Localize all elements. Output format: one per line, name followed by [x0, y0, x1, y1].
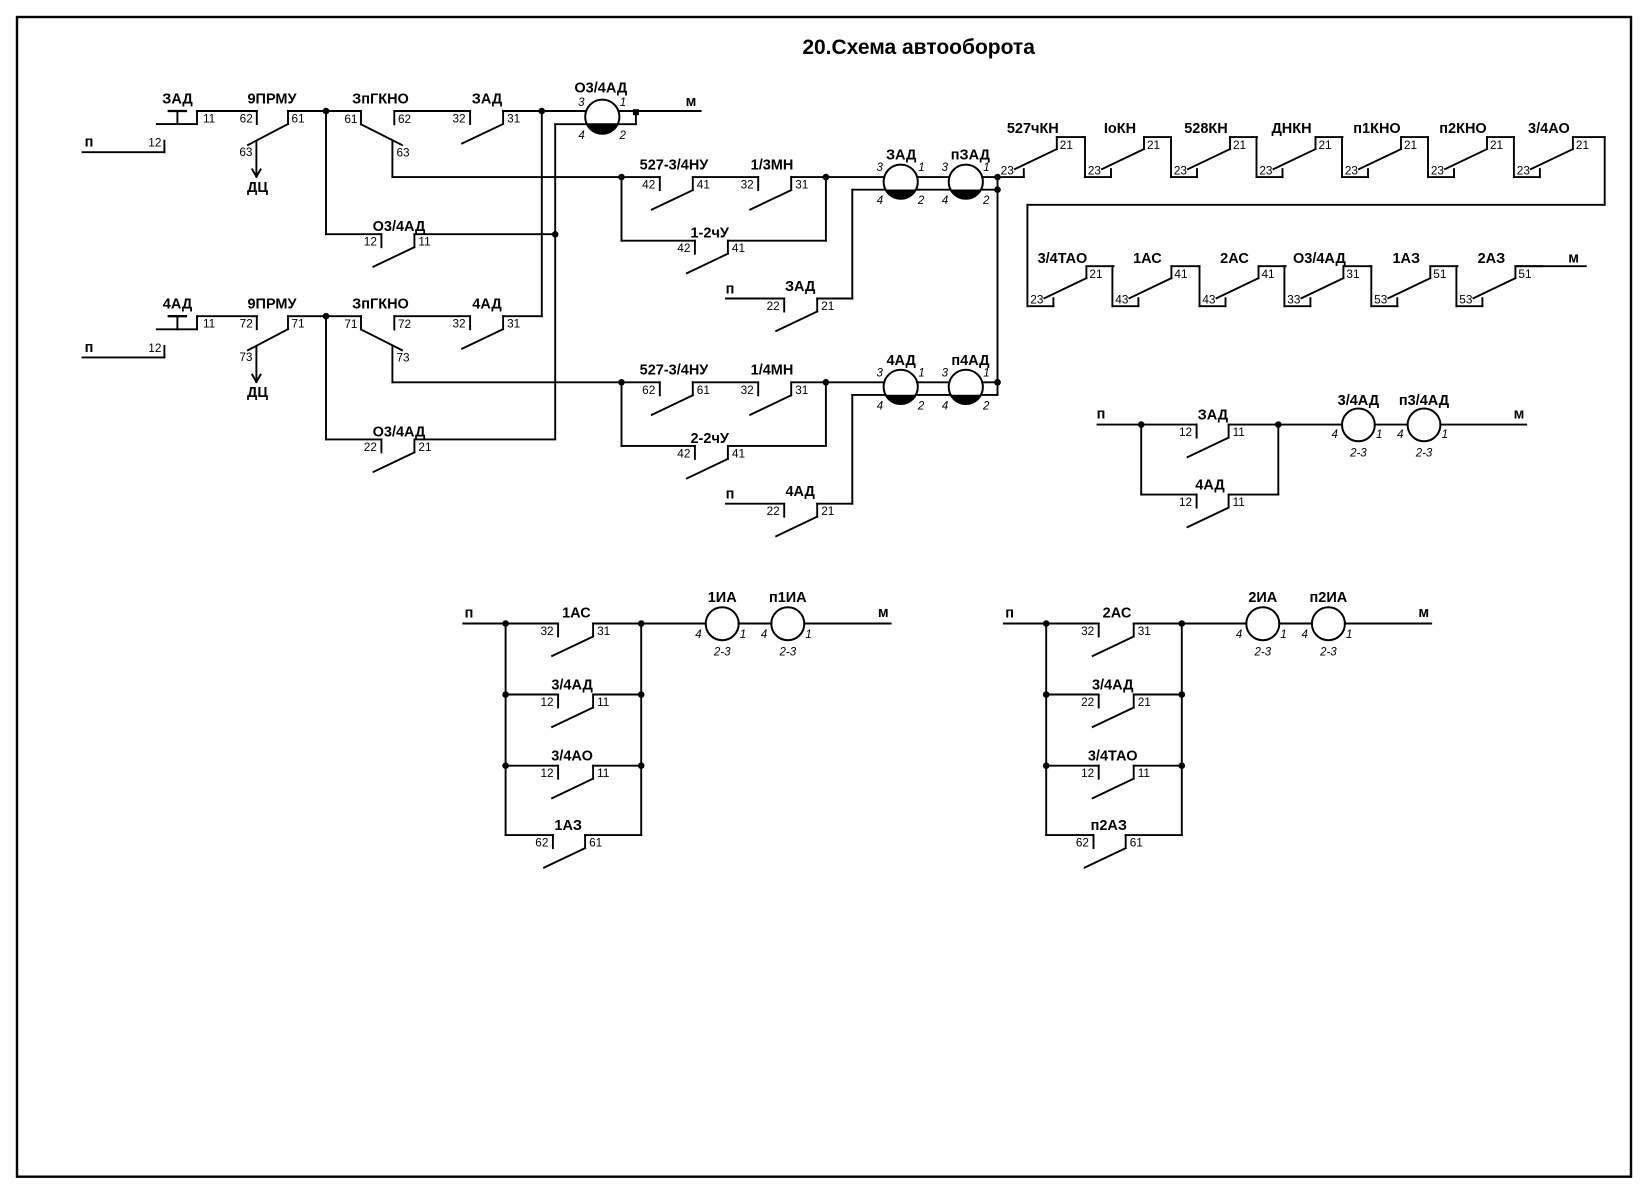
svg-text:п2ИА: п2ИА [1310, 590, 1348, 606]
svg-text:23: 23 [1174, 164, 1188, 178]
svg-text:ЗАД: ЗАД [785, 279, 816, 295]
svg-text:22: 22 [767, 504, 780, 518]
svg-text:63: 63 [397, 146, 411, 160]
svg-text:4АД: 4АД [785, 484, 815, 500]
svg-text:4: 4 [877, 195, 883, 207]
svg-text:п: п [85, 135, 94, 151]
svg-text:61: 61 [1130, 836, 1143, 850]
svg-text:23: 23 [1001, 164, 1015, 178]
svg-text:2-3: 2-3 [1253, 647, 1271, 659]
svg-text:IоКН: IоКН [1104, 121, 1136, 137]
svg-text:3/4АД: 3/4АД [551, 678, 593, 694]
svg-text:3/4ТАО: 3/4ТАО [1038, 251, 1088, 267]
svg-text:2АЗ: 2АЗ [1478, 251, 1506, 267]
svg-text:41: 41 [1262, 267, 1275, 281]
svg-text:4АД: 4АД [886, 353, 916, 369]
svg-text:71: 71 [344, 317, 357, 331]
svg-text:1: 1 [805, 629, 811, 641]
svg-text:72: 72 [240, 317, 253, 331]
svg-text:22: 22 [364, 440, 377, 454]
svg-text:1-2чУ: 1-2чУ [690, 226, 729, 242]
svg-text:41: 41 [732, 241, 745, 255]
svg-text:528КН: 528КН [1184, 121, 1228, 137]
svg-text:62: 62 [535, 836, 548, 850]
svg-text:527-3/4НУ: 527-3/4НУ [640, 157, 710, 173]
svg-text:О3/4АД: О3/4АД [574, 81, 627, 97]
svg-text:м: м [1568, 251, 1579, 267]
svg-text:12: 12 [1179, 495, 1192, 509]
svg-text:О3/4АД: О3/4АД [373, 424, 426, 440]
svg-text:3/4АД: 3/4АД [1092, 678, 1134, 694]
svg-text:м: м [1418, 605, 1429, 621]
svg-text:м: м [878, 605, 889, 621]
svg-text:53: 53 [1374, 293, 1388, 307]
svg-text:п3/4АД: п3/4АД [1399, 393, 1450, 409]
svg-text:4: 4 [1301, 629, 1307, 641]
svg-text:23: 23 [1345, 164, 1359, 178]
svg-text:73: 73 [239, 350, 253, 364]
svg-text:2: 2 [982, 400, 990, 412]
svg-text:9ПРМУ: 9ПРМУ [247, 92, 297, 108]
svg-text:32: 32 [452, 317, 465, 331]
svg-text:31: 31 [507, 112, 520, 126]
svg-text:9ПРМУ: 9ПРМУ [247, 297, 297, 313]
svg-text:43: 43 [1115, 293, 1129, 307]
svg-text:21: 21 [821, 504, 834, 518]
svg-text:м: м [686, 94, 697, 110]
svg-text:31: 31 [507, 317, 520, 331]
svg-text:61: 61 [292, 112, 305, 126]
svg-text:11: 11 [597, 695, 609, 709]
svg-text:п1ИА: п1ИА [769, 590, 807, 606]
svg-text:11: 11 [1233, 425, 1245, 439]
svg-text:41: 41 [697, 178, 710, 192]
svg-text:2АС: 2АС [1103, 606, 1132, 622]
svg-text:2: 2 [619, 130, 627, 142]
svg-text:1: 1 [620, 97, 626, 109]
svg-text:11: 11 [1138, 766, 1150, 780]
svg-text:11: 11 [1233, 495, 1245, 509]
svg-text:1АЗ: 1АЗ [554, 818, 582, 834]
svg-text:2: 2 [982, 195, 990, 207]
svg-text:3: 3 [942, 162, 949, 174]
svg-text:4: 4 [942, 195, 948, 207]
svg-text:3: 3 [578, 97, 585, 109]
svg-text:3: 3 [876, 162, 883, 174]
svg-text:4АД: 4АД [163, 297, 193, 313]
svg-text:4: 4 [695, 629, 701, 641]
svg-text:43: 43 [1202, 293, 1216, 307]
svg-text:п: п [726, 487, 735, 503]
svg-text:12: 12 [148, 136, 161, 150]
svg-text:м: м [1514, 407, 1525, 423]
svg-text:4: 4 [578, 130, 584, 142]
svg-text:33: 33 [1287, 293, 1301, 307]
svg-text:12: 12 [540, 695, 553, 709]
svg-text:12: 12 [1179, 425, 1192, 439]
svg-text:1АЗ: 1АЗ [1392, 251, 1420, 267]
svg-text:21: 21 [1490, 138, 1503, 152]
svg-text:21: 21 [1060, 138, 1073, 152]
svg-text:ДЦ: ДЦ [247, 385, 268, 401]
svg-text:1: 1 [918, 162, 924, 174]
svg-text:ЗпГКНО: ЗпГКНО [352, 92, 409, 108]
svg-text:1АС: 1АС [562, 606, 591, 622]
svg-text:2АС: 2АС [1220, 251, 1249, 267]
svg-text:12: 12 [364, 235, 377, 249]
svg-text:32: 32 [452, 112, 465, 126]
svg-text:2-2чУ: 2-2чУ [690, 431, 729, 447]
svg-text:20.Схема автооборота: 20.Схема автооборота [802, 36, 1035, 59]
svg-text:1: 1 [1346, 629, 1352, 641]
svg-text:п2КНО: п2КНО [1439, 121, 1486, 137]
svg-text:п: п [1097, 407, 1106, 423]
svg-text:11: 11 [418, 235, 430, 249]
svg-text:31: 31 [795, 178, 808, 192]
svg-text:п1КНО: п1КНО [1353, 121, 1400, 137]
svg-text:61: 61 [697, 383, 710, 397]
svg-text:31: 31 [795, 383, 808, 397]
svg-text:32: 32 [540, 624, 553, 638]
svg-text:21: 21 [1404, 138, 1417, 152]
svg-text:1: 1 [983, 162, 989, 174]
svg-text:72: 72 [398, 317, 411, 331]
svg-text:3/4АО: 3/4АО [551, 749, 593, 765]
svg-text:1АС: 1АС [1133, 251, 1162, 267]
svg-text:О3/4АД: О3/4АД [1293, 251, 1346, 267]
svg-text:62: 62 [240, 112, 253, 126]
svg-text:61: 61 [589, 836, 602, 850]
svg-text:62: 62 [1076, 836, 1089, 850]
svg-text:1/3МН: 1/3МН [751, 157, 794, 173]
svg-text:1/4МН: 1/4МН [751, 363, 794, 379]
svg-text:11: 11 [597, 766, 609, 780]
svg-text:4: 4 [761, 629, 767, 641]
svg-text:2-3: 2-3 [1415, 447, 1433, 459]
svg-text:4: 4 [1236, 629, 1242, 641]
svg-text:4: 4 [1331, 429, 1337, 441]
svg-text:42: 42 [677, 446, 690, 460]
svg-text:21: 21 [1233, 138, 1246, 152]
svg-text:2-3: 2-3 [778, 647, 796, 659]
svg-text:4: 4 [942, 400, 948, 412]
svg-text:2-3: 2-3 [1319, 647, 1337, 659]
svg-text:2ИА: 2ИА [1248, 590, 1277, 606]
svg-text:2-3: 2-3 [1349, 447, 1367, 459]
svg-text:12: 12 [148, 341, 161, 355]
svg-text:ДНКН: ДНКН [1271, 121, 1311, 137]
svg-text:21: 21 [821, 299, 834, 313]
svg-text:3/4АО: 3/4АО [1528, 121, 1570, 137]
svg-text:61: 61 [344, 112, 357, 126]
svg-text:32: 32 [741, 383, 754, 397]
svg-text:п: п [85, 340, 94, 356]
svg-text:23: 23 [1030, 293, 1044, 307]
svg-text:1: 1 [1376, 429, 1382, 441]
svg-text:1ИА: 1ИА [708, 590, 737, 606]
svg-text:73: 73 [397, 351, 411, 365]
svg-text:31: 31 [1138, 624, 1151, 638]
svg-text:527-3/4НУ: 527-3/4НУ [640, 363, 710, 379]
svg-text:51: 51 [1518, 267, 1531, 281]
svg-text:11: 11 [203, 112, 215, 126]
svg-text:21: 21 [1576, 138, 1589, 152]
svg-text:62: 62 [398, 112, 411, 126]
svg-text:53: 53 [1459, 293, 1473, 307]
svg-text:21: 21 [1089, 267, 1102, 281]
svg-text:3: 3 [942, 367, 949, 379]
svg-text:4: 4 [877, 400, 883, 412]
svg-text:3: 3 [876, 367, 883, 379]
svg-text:42: 42 [677, 241, 690, 255]
svg-text:32: 32 [1081, 624, 1094, 638]
svg-text:23: 23 [1259, 164, 1273, 178]
svg-text:1: 1 [1280, 629, 1286, 641]
svg-text:31: 31 [597, 624, 610, 638]
svg-text:ЗАД: ЗАД [886, 148, 917, 164]
svg-text:23: 23 [1088, 164, 1102, 178]
svg-text:п: п [465, 606, 474, 622]
svg-text:2: 2 [917, 195, 925, 207]
svg-text:О3/4АД: О3/4АД [373, 219, 426, 235]
svg-text:41: 41 [1174, 267, 1187, 281]
svg-text:3/4ТАО: 3/4ТАО [1088, 749, 1138, 765]
svg-text:ЗАД: ЗАД [162, 92, 193, 108]
svg-text:21: 21 [1138, 695, 1151, 709]
svg-text:62: 62 [642, 383, 655, 397]
svg-text:п: п [726, 282, 735, 298]
svg-text:23: 23 [1431, 164, 1445, 178]
svg-text:4АД: 4АД [472, 297, 502, 313]
svg-text:4АД: 4АД [1195, 478, 1225, 494]
svg-text:21: 21 [418, 440, 431, 454]
svg-text:22: 22 [1081, 695, 1094, 709]
svg-text:12: 12 [540, 766, 553, 780]
svg-text:1: 1 [740, 629, 746, 641]
svg-text:22: 22 [767, 299, 780, 313]
svg-text:21: 21 [1319, 138, 1332, 152]
svg-text:41: 41 [732, 446, 745, 460]
svg-text:63: 63 [239, 145, 253, 159]
svg-text:1: 1 [918, 367, 924, 379]
svg-text:11: 11 [203, 317, 215, 331]
svg-text:4: 4 [1397, 429, 1403, 441]
svg-text:71: 71 [292, 317, 305, 331]
svg-text:ЗпГКНО: ЗпГКНО [352, 297, 409, 313]
svg-text:31: 31 [1346, 267, 1359, 281]
svg-text:42: 42 [642, 178, 655, 192]
svg-text:п: п [1005, 606, 1014, 622]
svg-text:п2АЗ: п2АЗ [1091, 818, 1127, 834]
svg-text:527чКН: 527чКН [1007, 121, 1059, 137]
svg-text:23: 23 [1517, 164, 1531, 178]
svg-text:51: 51 [1433, 267, 1446, 281]
svg-text:ЗАД: ЗАД [1198, 407, 1229, 423]
svg-text:21: 21 [1147, 138, 1160, 152]
svg-text:1: 1 [983, 367, 989, 379]
svg-text:2-3: 2-3 [713, 647, 731, 659]
svg-text:12: 12 [1081, 766, 1094, 780]
svg-text:3/4АД: 3/4АД [1338, 393, 1380, 409]
svg-text:ДЦ: ДЦ [247, 180, 268, 196]
svg-text:2: 2 [917, 400, 925, 412]
svg-text:32: 32 [741, 178, 754, 192]
svg-text:ЗАД: ЗАД [472, 92, 503, 108]
svg-text:1: 1 [1442, 429, 1448, 441]
